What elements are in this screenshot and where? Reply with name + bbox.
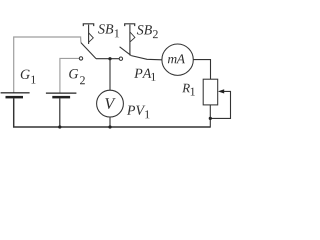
wire: ammeter to R1 top [194,60,211,80]
label G1 [21,70,30,79]
node: PV branch junction [108,57,111,60]
label SB2 [137,25,152,34]
wire: G1 bottom and bottom rail [14,98,211,127]
label mA [168,54,185,63]
wire: G1 top loop [14,37,81,93]
label PV1 [127,106,146,115]
wire: G2 riser and left inner segment [60,58,79,92]
junction dot G2-bottom [58,125,61,128]
switch SB1 blade [81,43,96,59]
switch SB2 contact circle [119,57,122,60]
label R1 [182,84,190,93]
label V [105,98,115,109]
battery G1 [1,92,30,98]
wire: inner run hinge1 to SB2 contact [96,58,119,60]
junction dot wiper/bottom [209,117,212,120]
wire: R1 bottom feed [209,105,211,128]
switch SB1 contact circle [79,57,82,60]
switch SB2 plunger and button cap [125,24,135,56]
junction dot PV-bottom [108,125,111,128]
battery G2 [46,93,77,99]
switch SB2 blade [120,47,132,56]
wire: G2 bottom [59,98,61,127]
ammeter PA1 circle [162,44,193,75]
resistor R1 box [203,79,218,105]
switch SB1 plunger and button cap [83,24,93,44]
R1 wiper arrow and return [210,89,230,118]
wire: voltmeter branch bottom [109,117,111,127]
wire: hinge2 to ammeter [131,56,162,60]
label SB1 [98,24,113,33]
label PA1 [134,69,151,78]
wire: voltmeter branch top [109,59,111,91]
voltmeter PV1 circle [97,90,124,117]
label G2 [69,69,78,78]
